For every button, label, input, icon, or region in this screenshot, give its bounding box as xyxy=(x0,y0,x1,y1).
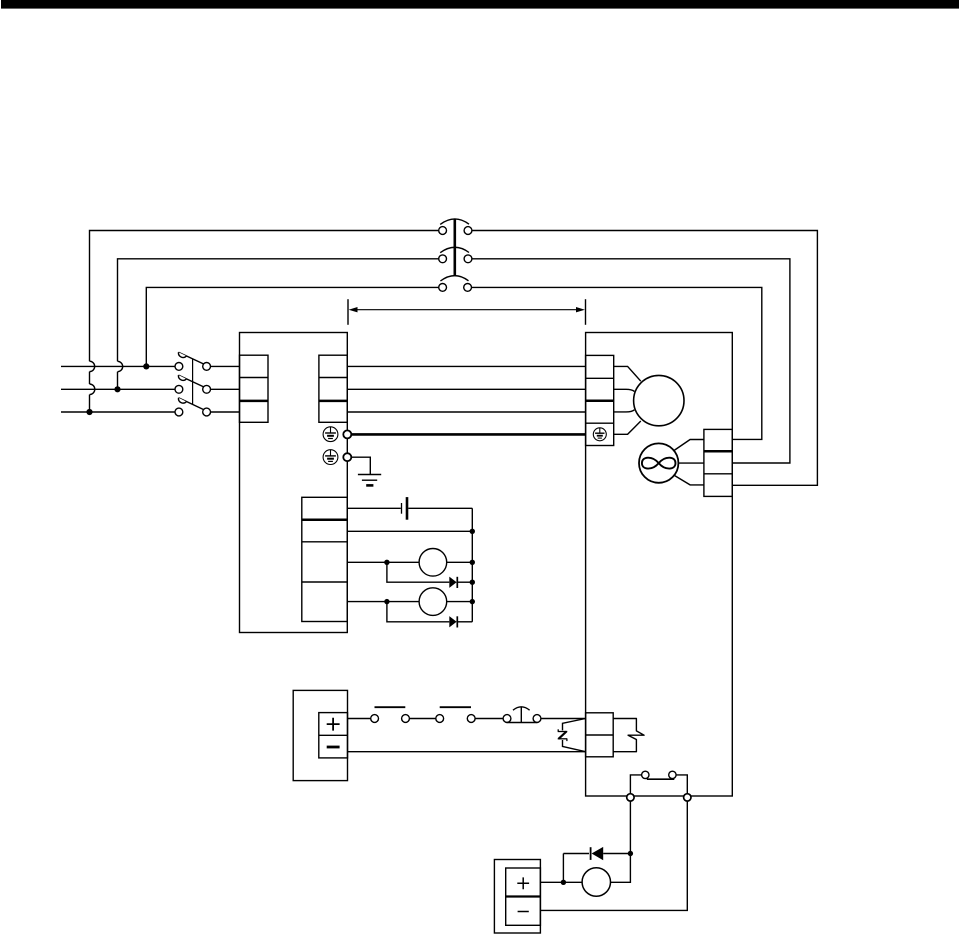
junction node on phase 3 xyxy=(86,409,92,415)
pushbutton PB cap arc xyxy=(513,707,530,710)
wire diode D1 to bus xyxy=(457,581,472,583)
TB1 divider 1 xyxy=(240,377,269,379)
bus junction dot 4 xyxy=(470,599,475,604)
brake contact left lead xyxy=(630,775,641,794)
junction dot at diode branch xyxy=(628,851,633,856)
connector CN1 pole 3 arc xyxy=(440,276,468,281)
PE stud circle 1 on box edge xyxy=(343,430,351,438)
detector (encoder) circle xyxy=(639,443,678,482)
pushbutton PB circles xyxy=(503,715,541,723)
TB4 divider 3 xyxy=(586,422,614,424)
detector lead 1 xyxy=(674,440,704,451)
TB5 divider 2 xyxy=(704,473,732,475)
bus junction dot 2 xyxy=(470,560,475,565)
diode D1 cathode bar xyxy=(456,577,458,588)
brake contact bar xyxy=(647,778,675,780)
phase wire 2 between units xyxy=(347,388,585,390)
wire loop B (middle): phase 2 tap to right-side terminal strip xyxy=(118,259,790,463)
PE stud circle 2 on box edge xyxy=(343,453,351,461)
diode branch vertical xyxy=(562,854,564,883)
breaker pole 3 hook xyxy=(178,398,186,403)
plus sign xyxy=(517,877,529,889)
PE terminal symbol 1 xyxy=(323,427,338,442)
PE terminal symbol 2 xyxy=(323,450,338,465)
DC supply terminal divider xyxy=(319,734,348,736)
right unit encoder terminal block TB5 xyxy=(704,429,732,496)
wire battery + to brake coil xyxy=(540,881,582,883)
brake battery box xyxy=(494,860,540,934)
motor lead U xyxy=(614,366,641,381)
junction dot on TB3-3 wire xyxy=(384,560,389,565)
wire S1 to S2 xyxy=(409,718,435,720)
motor lead W xyxy=(614,410,635,412)
DC control power supply box xyxy=(293,690,347,780)
wire battery - return xyxy=(540,801,687,910)
relay terminal block on right unit xyxy=(586,713,614,757)
plus sign xyxy=(327,718,340,731)
left unit (servo amplifier) outline xyxy=(240,333,348,633)
detector lead 3 xyxy=(674,475,704,485)
branch wire to diode D1 xyxy=(387,562,449,582)
earth ground symbol xyxy=(358,475,381,486)
TB2 divider 1 xyxy=(319,377,347,379)
battery B1 thick plate xyxy=(406,497,409,520)
control wire + to contact chain xyxy=(348,718,371,720)
minus sign xyxy=(518,911,529,913)
connector CN1 pole 1 arc xyxy=(440,219,469,224)
TB5 divider 1 (thick) xyxy=(704,450,732,453)
surge absorber Z element xyxy=(558,729,568,741)
TB3 divider 3 xyxy=(302,581,348,583)
wire loop C (inner): phase 1 tap to right-side terminal strip xyxy=(146,287,762,439)
hop of wire A over phase line 2 xyxy=(90,384,95,395)
motor lead PE xyxy=(614,421,641,434)
pushbutton PB contact bar xyxy=(507,722,538,724)
contact S2 circles xyxy=(436,715,475,723)
breaker pole 3 blade xyxy=(179,398,204,410)
dimension arrow between units xyxy=(348,299,586,325)
wire TB3-1 to battery xyxy=(347,507,401,509)
minus sign xyxy=(327,746,340,749)
wire pole3 to left box xyxy=(211,411,240,413)
bus junction dot 1 xyxy=(470,529,475,534)
breaker pole 2 blade xyxy=(179,375,204,387)
wire S2 to PB xyxy=(475,718,503,720)
contact S2 bar xyxy=(440,706,471,708)
left unit input terminal block TB1 xyxy=(240,355,269,422)
protective earth wire (thick) to right unit xyxy=(351,433,585,436)
wire TB3-2 to bus xyxy=(347,530,472,532)
connector CN1 pole 3 circles xyxy=(439,284,472,292)
header bar xyxy=(1,0,959,9)
relay coil continuation bolt xyxy=(613,719,644,752)
right vertical bus of battery/lamp group xyxy=(471,508,473,622)
pushbutton PB stem xyxy=(520,707,522,722)
wire pole2 to left box xyxy=(211,388,240,390)
lamp PL1 xyxy=(419,549,447,577)
brake contact circles xyxy=(642,771,677,778)
diode D2 triangle xyxy=(449,616,456,627)
wire lamp PL2 to bus xyxy=(447,601,473,603)
surge absorber branch lower slant xyxy=(563,740,586,752)
brake battery terminal block xyxy=(506,868,541,925)
surge absorber branch upper slant xyxy=(563,719,586,731)
contact S1 bar xyxy=(375,706,406,708)
flyback diode D3 triangle xyxy=(592,847,604,860)
wire battery to bus xyxy=(408,507,472,509)
branch wire to diode D2 xyxy=(387,602,449,622)
connector CN1 pole 2 circles xyxy=(439,255,472,263)
TB4 divider 2 (thick) xyxy=(586,399,614,402)
connector CN1 body bar xyxy=(453,219,456,276)
TB3 divider 1 (thick) xyxy=(302,518,348,521)
wire to earth xyxy=(351,457,370,474)
junction node on phase 1 xyxy=(143,363,149,369)
brake battery terminal divider (thick) xyxy=(506,895,541,897)
DC supply terminal block xyxy=(319,713,348,758)
wire TB3-3 to lamp PL1 xyxy=(347,561,419,563)
hop of wire B over phase line 1 xyxy=(118,361,123,371)
diode D1 triangle xyxy=(449,577,456,588)
brake terminal stud left xyxy=(627,794,634,801)
control wire - return xyxy=(348,751,586,753)
right unit power terminal block TB4 xyxy=(586,355,614,445)
phase wire 3 between units xyxy=(347,411,585,413)
wire brake left terminal down xyxy=(629,801,631,853)
wire diode D2 to bus xyxy=(457,621,472,623)
breaker pole 1 blade xyxy=(179,352,204,364)
bus junction dot 3 xyxy=(470,580,475,585)
flyback diode D3 cathode bar xyxy=(590,847,592,860)
infinity glyph xyxy=(642,458,676,469)
wire loop A (outer): phase 3 tap to right-side terminal strip xyxy=(90,231,818,486)
battery B1 thin plate xyxy=(401,503,403,514)
wire TB3-4 to lamp PL2 xyxy=(347,601,419,603)
TB4 divider 1 xyxy=(586,377,614,379)
wire pole1 to left box xyxy=(211,365,240,367)
phase wire 1 between units xyxy=(347,365,585,367)
phase line 2 (left feed) xyxy=(61,388,175,390)
breaker pole 2 contact circles xyxy=(175,385,211,393)
diode branch wires xyxy=(563,853,630,855)
left unit control terminal block TB3 xyxy=(302,497,348,621)
breaker linkage bar xyxy=(192,359,194,405)
breaker pole 2 hook xyxy=(178,375,186,380)
wire PB to relay strip xyxy=(541,718,586,720)
brake coil circle xyxy=(582,868,610,896)
phase line 3 (left feed) xyxy=(61,411,175,413)
detector lead 2 xyxy=(678,462,704,464)
motor M circle xyxy=(634,375,684,425)
right unit (motor) outline xyxy=(586,333,733,797)
diode D2 cathode bar xyxy=(456,616,458,627)
left unit inner terminal block TB2 xyxy=(319,355,347,422)
wire brake coil to riser xyxy=(611,854,631,883)
TB3 divider 2 xyxy=(302,541,348,543)
TB1 divider 2 (thick) xyxy=(240,400,269,403)
breaker pole 1 hook xyxy=(178,352,186,357)
junction dot on TB3-4 wire xyxy=(384,599,389,604)
brake terminal stud right xyxy=(684,794,691,801)
TB2 divider 2 (thick) xyxy=(319,400,347,403)
connector CN1 pole 2 arc xyxy=(440,247,469,252)
relay terminal divider xyxy=(586,734,614,736)
junction node on phase 2 xyxy=(114,386,120,392)
connector CN1 pole 1 circles xyxy=(439,227,472,235)
breaker pole 1 contact circles xyxy=(175,363,211,371)
wire lamp PL1 to bus xyxy=(447,561,473,563)
phase line 1 (left feed) xyxy=(61,365,175,367)
hop of wire A over phase line 1 xyxy=(90,361,95,371)
brake contact right lead xyxy=(676,775,687,794)
breaker pole 3 contact circles xyxy=(175,408,211,416)
contact S1 circles xyxy=(371,715,410,723)
motor lead V xyxy=(614,389,635,391)
lamp PL2 xyxy=(419,588,447,616)
junction dot at brake motor + xyxy=(561,880,566,885)
PE symbol in TB4 xyxy=(593,428,606,441)
